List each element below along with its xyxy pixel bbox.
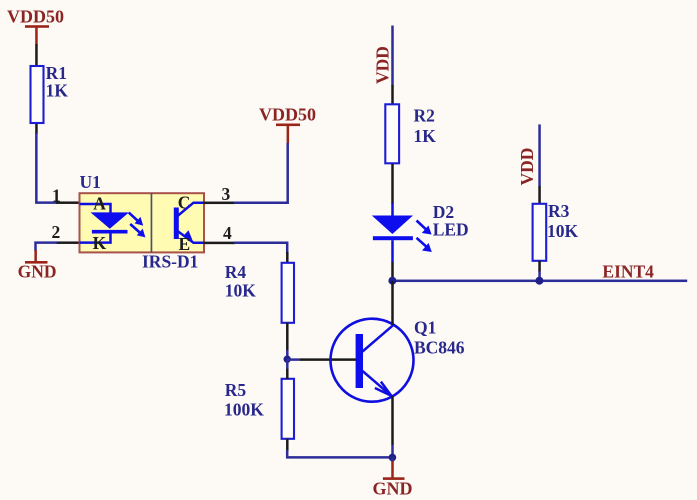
wire VDD50 to pin 3 of U1 <box>204 143 288 204</box>
svg-text:EINT4: EINT4 <box>602 262 654 282</box>
wire base node to R5 <box>286 359 289 379</box>
wire VDD to R3 <box>538 124 541 204</box>
Q1 emitter lead with arrow <box>363 371 393 396</box>
svg-text:4: 4 <box>223 223 232 243</box>
U1 internal LED cathode lead <box>80 233 111 243</box>
wire R5 to bottom rail <box>286 439 392 458</box>
node junction emitter/R5/GND <box>389 454 397 462</box>
wire VDD50 to R1 <box>35 44 38 66</box>
D2 emission arrow 2 <box>417 238 432 252</box>
svg-text:10K: 10K <box>547 221 579 241</box>
power symbol VDD (above R2) <box>373 46 393 84</box>
wire R2 to D2 <box>391 164 394 216</box>
svg-text:3: 3 <box>222 184 231 204</box>
U1 internal LED cathode bar <box>92 230 128 234</box>
ground GND (bottom) <box>373 457 413 498</box>
power symbol VDD50 (top-left) <box>7 6 64 44</box>
svg-text:A: A <box>93 193 106 213</box>
svg-text:GND: GND <box>18 262 57 282</box>
wire Q1 collector to node <box>391 281 394 325</box>
svg-text:VDD50: VDD50 <box>259 104 316 124</box>
svg-text:1K: 1K <box>46 81 69 101</box>
LED D2 cathode bar <box>373 236 413 240</box>
wire pin 2 of U1 to GND <box>36 241 80 251</box>
svg-text:LED: LED <box>433 220 469 240</box>
wire R3 to EINT4 net <box>538 261 541 281</box>
U1 internal LED triangle <box>91 212 130 228</box>
transistor Q1 circle <box>331 319 414 402</box>
U1 LED emission arrow 1 <box>129 213 143 226</box>
svg-text:BC846: BC846 <box>414 337 465 357</box>
wire base node to Q1 base <box>287 358 356 361</box>
svg-text:E: E <box>179 234 191 254</box>
U1 internal LED anode lead <box>80 204 111 213</box>
svg-text:IRS-D1: IRS-D1 <box>142 251 198 271</box>
svg-text:1K: 1K <box>414 126 437 146</box>
optocoupler U1 body <box>80 193 205 252</box>
Q1 collector lead <box>363 325 394 351</box>
resistor R4 <box>282 263 294 323</box>
svg-text:2: 2 <box>52 222 61 242</box>
LED D2 triangle <box>372 216 413 235</box>
svg-text:R5: R5 <box>225 380 247 400</box>
D2 emission arrow 1 <box>417 221 432 235</box>
U1 LED emission arrow 2 <box>130 224 145 237</box>
svg-text:VDD: VDD <box>517 148 537 186</box>
svg-text:1: 1 <box>52 186 61 206</box>
wire pin 4 of U1 to R4 <box>204 242 289 263</box>
svg-text:VDD: VDD <box>373 46 393 84</box>
wire Q1 emitter to GND node <box>391 396 394 457</box>
node junction R4/R5/base <box>284 356 291 363</box>
svg-text:R2: R2 <box>414 105 435 125</box>
svg-text:Q1: Q1 <box>414 317 436 337</box>
wire R4 to base node <box>286 323 289 359</box>
U1 phototransistor base bar <box>174 208 179 240</box>
svg-text:100K: 100K <box>224 399 264 419</box>
wire D2 to collector node <box>391 240 394 281</box>
wire R1 to pin 1 of U1 <box>35 124 80 204</box>
U1 phototransistor emitter lead with arrow <box>178 230 205 243</box>
resistor R1 <box>31 66 44 123</box>
svg-text:R3: R3 <box>548 201 570 221</box>
wire VDD to R2 <box>391 26 394 105</box>
resistor R2 <box>385 104 399 163</box>
svg-text:U1: U1 <box>80 172 101 192</box>
power symbol VDD50 (middle) <box>259 104 316 143</box>
U1 phototransistor collector lead <box>178 203 205 216</box>
svg-text:R4: R4 <box>225 262 247 282</box>
power symbol VDD (above R3) <box>517 148 537 186</box>
resistor R5 <box>282 379 294 439</box>
svg-text:VDD50: VDD50 <box>7 6 64 26</box>
svg-text:K: K <box>93 233 107 253</box>
wire EINT4 net <box>392 280 687 283</box>
svg-text:10K: 10K <box>225 281 256 301</box>
svg-text:GND: GND <box>373 479 413 499</box>
Q1 base bar <box>356 334 363 388</box>
ground GND (left) <box>18 250 57 282</box>
node junction D2/collector/EINT4 <box>388 277 396 285</box>
resistor R3 <box>533 204 547 261</box>
node junction R3/EINT4 <box>535 277 543 285</box>
